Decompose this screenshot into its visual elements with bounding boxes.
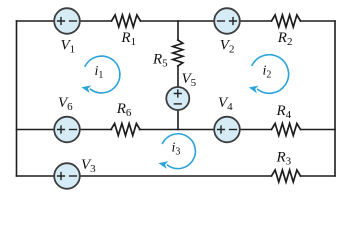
resistor R4 xyxy=(272,124,301,136)
voltage source V3 xyxy=(54,163,80,189)
wire xyxy=(301,129,336,131)
svg-text:R5: R5 xyxy=(152,51,168,69)
resistor R5 xyxy=(173,40,183,66)
svg-text:R6: R6 xyxy=(116,101,132,119)
svg-text:R3: R3 xyxy=(276,150,292,168)
resistor R6 xyxy=(111,124,140,136)
svg-text:i2: i2 xyxy=(263,64,272,81)
svg-text:i1: i1 xyxy=(95,64,104,81)
svg-text:V1: V1 xyxy=(61,38,76,56)
wire xyxy=(141,20,272,22)
voltage source V2 xyxy=(214,8,240,34)
svg-text:R1: R1 xyxy=(120,30,136,48)
voltage source V4 xyxy=(214,117,240,143)
voltage source V1 xyxy=(54,8,80,34)
resistor R2 xyxy=(272,15,301,27)
resistor R3 xyxy=(272,170,301,182)
svg-text:V6: V6 xyxy=(58,95,73,113)
svg-text:V2: V2 xyxy=(220,38,235,56)
svg-text:V5: V5 xyxy=(182,71,197,89)
svg-text:R2: R2 xyxy=(277,30,293,48)
svg-text:i3: i3 xyxy=(172,140,181,157)
wire xyxy=(177,21,179,40)
wire xyxy=(17,20,112,22)
wire xyxy=(301,175,336,177)
svg-text:V3: V3 xyxy=(81,157,96,175)
wire xyxy=(16,21,18,176)
mesh current arrow i1 xyxy=(81,56,119,93)
svg-text:R4: R4 xyxy=(276,103,292,121)
wire xyxy=(301,20,336,22)
voltage source V5 xyxy=(166,87,189,110)
svg-text:V4: V4 xyxy=(218,95,233,113)
voltage source V6 xyxy=(54,117,80,143)
wire xyxy=(140,129,272,131)
wire xyxy=(334,21,336,176)
wire xyxy=(177,66,179,87)
mesh current arrow i3 xyxy=(159,134,196,169)
wire xyxy=(17,129,112,131)
wire xyxy=(177,110,179,130)
resistor R1 xyxy=(112,15,141,27)
mesh current arrow i2 xyxy=(249,55,289,94)
wire xyxy=(17,175,272,177)
